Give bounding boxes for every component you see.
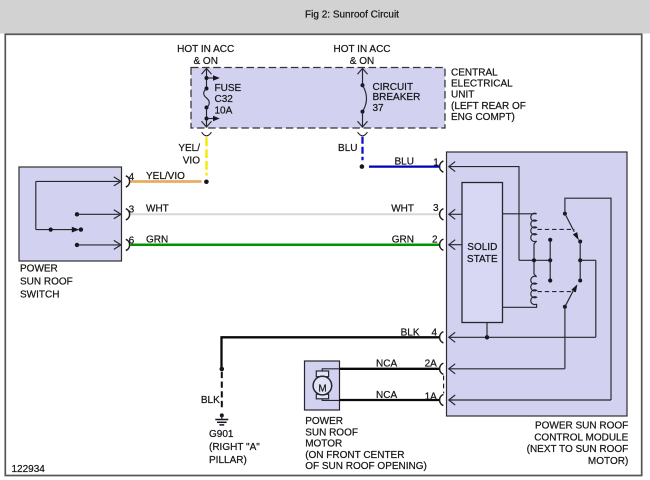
relay contact lower — [563, 279, 582, 309]
node junction yellow wire — [204, 180, 209, 185]
svg-text:1: 1 — [433, 158, 439, 169]
svg-text:10A: 10A — [215, 106, 233, 117]
wire switch wiper row — [36, 227, 80, 233]
wire BLK dashed to ground — [221, 372, 223, 410]
motor M1 symbol — [313, 369, 339, 401]
svg-text:CENTRAL: CENTRAL — [451, 67, 498, 78]
svg-text:MOTOR: MOTOR — [305, 439, 342, 450]
svg-text:3: 3 — [433, 203, 439, 214]
svg-text:POWER: POWER — [20, 263, 58, 274]
wire WHT — [131, 213, 440, 215]
wire module pin 2 internal — [449, 240, 462, 250]
svg-text:& ON: & ON — [350, 56, 374, 67]
wire module pin 1A internal — [449, 395, 611, 405]
title bar — [0, 0, 650, 34]
svg-text:NCA: NCA — [376, 359, 397, 370]
svg-text:WHT: WHT — [391, 204, 414, 215]
label SOLID STATE — [467, 242, 498, 265]
svg-text:STATE: STATE — [467, 254, 498, 265]
svg-text:ENG COMPT): ENG COMPT) — [451, 112, 515, 123]
connector link 2A-1A (dashed) — [443, 376, 445, 394]
common contact rail — [579, 242, 581, 281]
svg-text:37: 37 — [373, 103, 385, 114]
svg-text:CONTROL MODULE: CONTROL MODULE — [534, 432, 628, 443]
svg-text:122934: 122934 — [12, 464, 46, 475]
wire YEL/VIO vertical (dashed yellow) — [205, 137, 207, 175]
svg-text:YEL/VIO: YEL/VIO — [146, 171, 185, 182]
svg-text:BLK: BLK — [401, 328, 420, 339]
node wiper contact — [79, 227, 83, 231]
wire BLK from module pin 4 to ground drop — [222, 337, 440, 368]
svg-text:2: 2 — [432, 235, 438, 246]
node splice on ground drop — [220, 367, 225, 372]
svg-text:SUN ROOF: SUN ROOF — [20, 276, 73, 287]
connector arc below fuse — [202, 132, 212, 136]
svg-text:BLK: BLK — [201, 395, 220, 406]
svg-text:2A: 2A — [425, 358, 438, 369]
svg-text:NCA: NCA — [376, 390, 397, 401]
wire switch internal to pin 6 — [75, 240, 121, 249]
svg-text:UNIT: UNIT — [451, 90, 474, 101]
wire bus to pin 4 line — [595, 260, 597, 337]
junction on wiper row — [49, 228, 53, 232]
pin 1 connector arc (module) — [440, 161, 444, 172]
pin 2 connector arc (module) — [440, 239, 444, 250]
middle bus wire — [519, 258, 596, 262]
wire switch internal vertical — [35, 181, 37, 229]
wire NCA to pin 2A — [340, 368, 440, 370]
svg-text:MOTOR): MOTOR) — [588, 456, 628, 467]
wire module pin 2A internal — [449, 364, 565, 374]
svg-text:BREAKER: BREAKER — [373, 92, 421, 103]
center link element — [548, 238, 552, 283]
svg-text:YEL/: YEL/ — [178, 143, 200, 154]
wire pivot lower to pin 2A — [564, 307, 566, 369]
wire switch internal to pin 3 — [75, 210, 121, 219]
svg-text:C32: C32 — [215, 94, 234, 105]
svg-text:SWITCH: SWITCH — [20, 289, 59, 300]
wire GRN — [131, 243, 440, 246]
label POWER SUN ROOF CONTROL MODULE — [527, 421, 629, 467]
power sun roof control module box — [447, 152, 628, 416]
label HOT IN ACC & ON (left) — [177, 44, 234, 67]
label POWER SUN ROOF SWITCH — [20, 263, 73, 300]
label G901 (RIGHT "A" PILLAR) — [209, 429, 260, 466]
junction pin 4 wire — [485, 335, 489, 339]
central electrical unit box (dashed) — [191, 68, 445, 129]
svg-text:HOT IN ACC: HOT IN ACC — [333, 44, 390, 55]
wire solid state to pin 4 — [486, 323, 488, 338]
wire BLU vertical (dashed blue) — [361, 137, 363, 160]
relay contact upper — [563, 212, 582, 244]
svg-text:POWER: POWER — [305, 416, 343, 427]
svg-text:OF SUN ROOF OPENING): OF SUN ROOF OPENING) — [305, 461, 427, 472]
svg-text:POWER SUN ROOF: POWER SUN ROOF — [535, 421, 628, 432]
svg-text:Fig 2: Sunroof Circuit: Fig 2: Sunroof Circuit — [305, 10, 399, 21]
wire BLU horizontal to module pin 1 — [369, 165, 440, 167]
wire module pin 4 internal — [449, 332, 596, 342]
connector arc below breaker — [358, 132, 368, 136]
svg-text:HOT IN ACC: HOT IN ACC — [177, 44, 234, 55]
wire pivot upper to top rail — [565, 198, 611, 400]
circuit breaker 37 — [358, 68, 421, 127]
svg-text:1A: 1A — [425, 391, 438, 402]
svg-text:(NEXT TO SUN ROOF: (NEXT TO SUN ROOF — [527, 444, 629, 455]
relay coil upper — [503, 213, 537, 260]
node junction blue wire — [360, 164, 365, 169]
pin 4 connector arc (switch) — [126, 176, 130, 187]
solid state box — [462, 183, 503, 323]
pin 3 connector arc (switch) — [126, 209, 130, 220]
label YEL/ VIO — [178, 143, 200, 167]
label CENTRAL ELECTRICAL UNIT — [451, 67, 526, 123]
svg-text:(ON FRONT CENTER: (ON FRONT CENTER — [305, 450, 404, 461]
linkage dashed upper — [538, 228, 575, 230]
svg-text:VIO: VIO — [183, 155, 200, 166]
svg-text:WHT: WHT — [146, 204, 169, 215]
wire switch internal to pin 4 — [36, 177, 121, 186]
svg-text:SOLID: SOLID — [467, 242, 497, 253]
wire module pin 3 internal — [449, 209, 462, 219]
svg-text:G901: G901 — [209, 429, 234, 440]
pin 4 connector arc (module) — [440, 332, 444, 343]
linkage dashed lower — [538, 291, 575, 293]
svg-text:GRN: GRN — [392, 234, 414, 245]
power sun roof motor box — [305, 361, 340, 410]
ground G901 — [215, 413, 228, 425]
svg-text:(RIGHT "A": (RIGHT "A" — [209, 442, 260, 453]
wire NCA to pin 1A — [340, 399, 440, 401]
pin 1A connector arc (module) — [440, 394, 444, 405]
label POWER SUN ROOF MOTOR — [305, 416, 427, 472]
label HOT IN ACC & ON (right) — [333, 44, 390, 67]
svg-text:& ON: & ON — [193, 56, 217, 67]
svg-text:4: 4 — [129, 172, 135, 183]
svg-text:BLU: BLU — [395, 156, 414, 167]
svg-text:BLU: BLU — [338, 143, 357, 154]
svg-text:(LEFT REAR OF: (LEFT REAR OF — [451, 101, 526, 112]
svg-text:ELECTRICAL: ELECTRICAL — [451, 79, 513, 90]
pin 6 connector arc (switch) — [126, 239, 130, 250]
relay coil lower — [503, 260, 537, 307]
fuse C32 10A — [202, 68, 242, 127]
svg-text:SUN ROOF: SUN ROOF — [305, 427, 358, 438]
svg-text:FUSE: FUSE — [215, 83, 242, 94]
pin 3 connector arc (module) — [440, 209, 444, 220]
svg-text:4: 4 — [432, 328, 438, 339]
pin 2A connector arc (module) — [440, 363, 444, 374]
power sun roof switch box — [19, 167, 122, 261]
wire module pin 1 internal — [449, 162, 519, 261]
wire YEL/VIO horizontal (orange) — [131, 180, 202, 183]
svg-text:PILLAR): PILLAR) — [209, 455, 247, 466]
svg-text:M: M — [318, 383, 326, 394]
